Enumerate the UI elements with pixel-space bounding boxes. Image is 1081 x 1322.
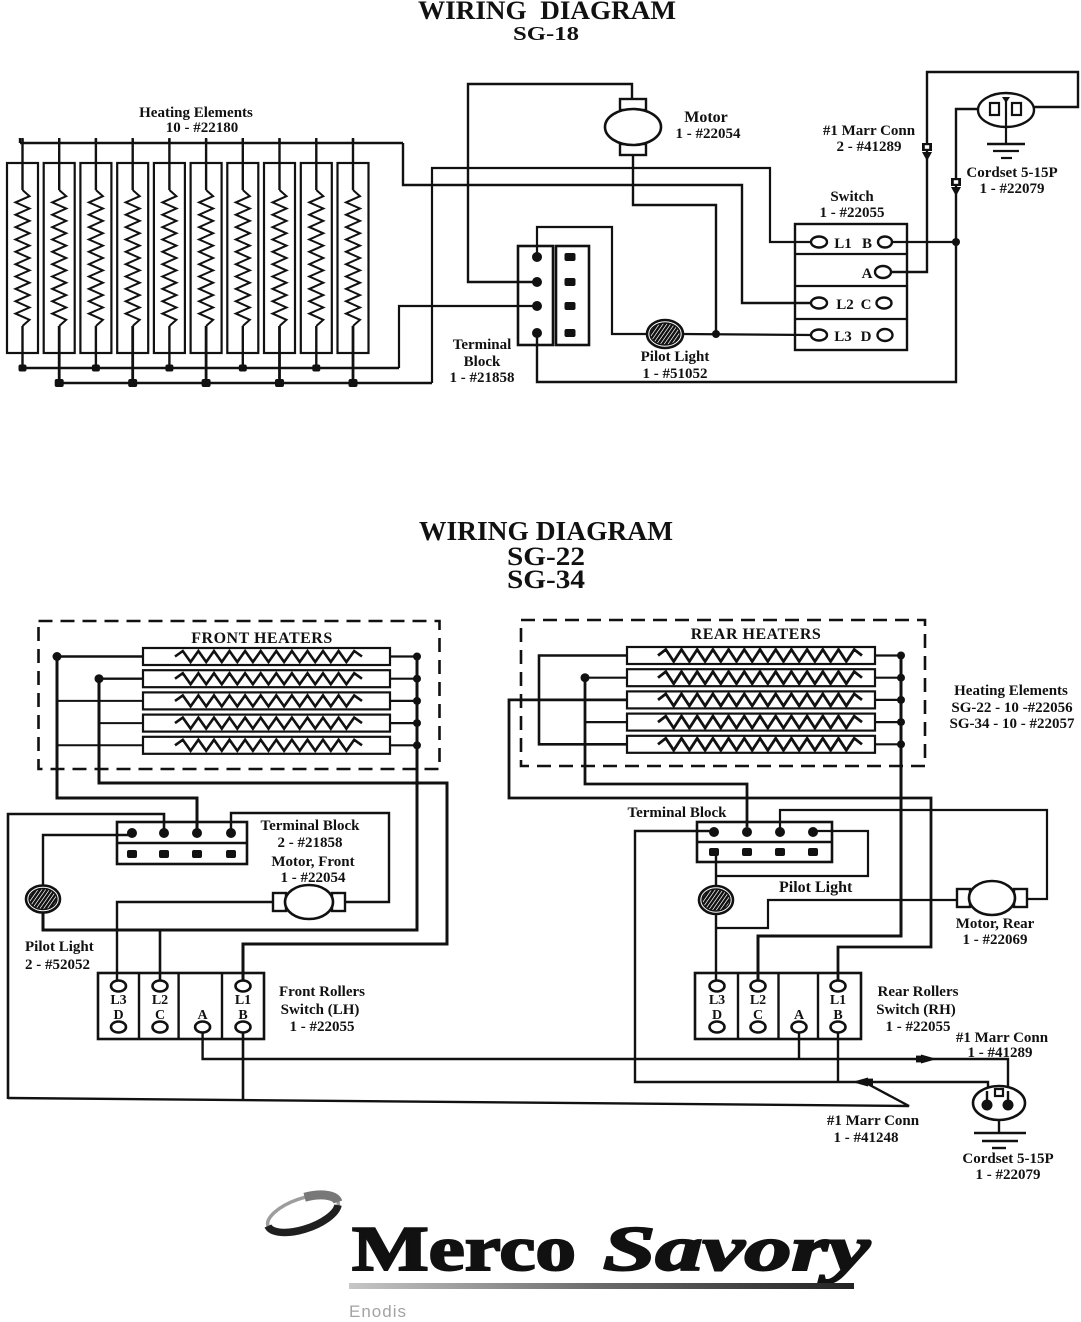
front heating element FE3 <box>143 692 390 709</box>
svg-text:Switch: Switch <box>830 189 874 205</box>
wire: rear heater 3 right lead <box>875 699 901 701</box>
svg-text:Merco: Merco <box>352 1214 576 1284</box>
wire: front switch L2 riser <box>159 930 162 981</box>
svg-text:Terminal Block: Terminal Block <box>260 818 360 834</box>
wire: heater bottom bus 2 (even elements) <box>59 382 432 385</box>
wire: front left bus B to switch L1 <box>99 679 447 981</box>
wire: front heater 2 right lead <box>390 678 417 680</box>
wire: rear pilot top riser <box>715 852 717 886</box>
junction: bus A top <box>53 652 62 661</box>
svg-text:Pilot Light: Pilot Light <box>641 349 710 365</box>
wire: front right bus to L2/pilot <box>43 657 417 931</box>
wire: front heater 2 left lead <box>99 678 143 680</box>
wire: left rail (terminal pin 2 to cordset neutral) <box>8 814 164 1099</box>
heating element E5 (#22180) with leads <box>154 163 185 353</box>
svg-text:Savory: Savory <box>603 1214 872 1284</box>
marr conn (neutral splice, 1 - #41248) <box>852 1078 868 1087</box>
svg-text:L2: L2 <box>152 993 168 1008</box>
wire: front heater 1 right lead <box>390 655 417 657</box>
svg-text:1 - #21858: 1 - #21858 <box>450 370 515 386</box>
junction: bus B top <box>95 674 104 683</box>
rear heating element RE5 <box>627 736 875 753</box>
svg-text:C: C <box>861 297 872 313</box>
svg-text:Pilot Light: Pilot Light <box>25 939 94 955</box>
svg-text:SG-22 - 10 -#22056: SG-22 - 10 -#22056 <box>951 700 1073 716</box>
front heating element FE2 <box>143 670 390 687</box>
svg-text:SG-18: SG-18 <box>513 23 579 45</box>
wire: front switch B down to neutral run <box>242 1033 245 1100</box>
wire: motor M1 bottom to pilot/L3 node <box>633 156 716 334</box>
marr conn (on neutral riser, #41289) <box>951 178 961 186</box>
pilot light PL3 (rear, #52052) <box>699 886 733 914</box>
svg-text:D: D <box>861 329 872 345</box>
logo gradient bar <box>349 1283 854 1289</box>
wire: front switch A to cordset hot (long run) <box>203 1033 1008 1091</box>
wire: front heater 3 left lead <box>57 700 143 702</box>
wire: rear heater1/heater5 series link <box>539 656 627 745</box>
wire: front heater 5 right lead <box>390 744 417 746</box>
svg-text:1 - #41289: 1 - #41289 <box>968 1045 1033 1061</box>
svg-text:A: A <box>862 266 873 282</box>
terminal block TB2 (front, 2 - #21858) <box>117 822 247 864</box>
svg-text:Enodis: Enodis <box>349 1302 407 1321</box>
wire: rear switch B riser to neutral splice <box>837 1033 839 1082</box>
svg-text:L1: L1 <box>834 236 852 252</box>
wire: front heater 4 right lead <box>390 722 417 724</box>
wire: rear heater 2 lead to bus <box>585 677 627 679</box>
heating element E7 (#22180) with leads <box>227 163 258 353</box>
svg-text:Cordset 5-15P: Cordset 5-15P <box>962 1151 1053 1167</box>
svg-text:#1 Marr Conn: #1 Marr Conn <box>956 1030 1049 1046</box>
heating element E2 (#22180) with leads <box>44 163 75 353</box>
rear heating element RE3 <box>627 691 875 708</box>
svg-text:REAR HEATERS: REAR HEATERS <box>691 626 822 643</box>
wire: rear pilot bottom to switch L3 <box>715 914 717 981</box>
wire: heater bottom bus 1 (odd elements) <box>22 367 399 370</box>
svg-text:10 - #22180: 10 - #22180 <box>166 120 239 136</box>
marr conn (on hot riser, #41289) <box>922 143 932 151</box>
svg-text:L2: L2 <box>836 297 854 313</box>
junction: rear bus 2/4 top <box>581 673 590 682</box>
wire: front left bus A to terminal pin 3 <box>57 657 197 832</box>
svg-text:L1: L1 <box>235 993 251 1008</box>
heating element E4 (#22180) with leads <box>117 163 148 353</box>
svg-text:B: B <box>862 236 872 252</box>
svg-text:Heating Elements: Heating Elements <box>139 105 253 121</box>
svg-text:1 - #41248: 1 - #41248 <box>834 1130 899 1146</box>
wire: rear heater 3 to switch L1 <box>509 700 931 981</box>
svg-text:SG-34: SG-34 <box>507 565 585 594</box>
svg-text:Block: Block <box>464 354 501 370</box>
svg-text:L3: L3 <box>110 993 126 1008</box>
marr conn (on hot run, 1 - #41289) <box>921 1055 937 1064</box>
switch SW1 (1 - #22055) <box>795 224 907 350</box>
wire: rear heater 2 right lead <box>875 677 901 679</box>
wire: terminal pin 2 to motor M1 top <box>468 84 632 282</box>
wire: front pilot top to terminal pin 1 <box>43 835 136 886</box>
svg-text:1 - #22079: 1 - #22079 <box>980 181 1045 197</box>
svg-text:Heating Elements: Heating Elements <box>954 683 1068 699</box>
wire: front heater 5 left lead <box>57 744 143 746</box>
svg-text:Front Rollers: Front Rollers <box>279 984 365 1000</box>
svg-text:Rear Rollers: Rear Rollers <box>878 984 959 1000</box>
cordset plug J1 (5-15P) with ground <box>978 93 1034 127</box>
wire: front heater 4 left lead <box>99 722 143 724</box>
dashed enclosure: REAR HEATERS <box>521 620 925 766</box>
svg-text:1 - #22069: 1 - #22069 <box>963 932 1028 948</box>
motor M3 (rear, 1 - #22069) <box>957 889 970 907</box>
rear heating element RE1 <box>627 647 875 664</box>
wire: bottom bus 2 to switch L1 <box>432 168 811 383</box>
wire: terminal pin 4 to front motor right <box>231 813 389 902</box>
svg-text:1 - #51052: 1 - #51052 <box>643 366 708 382</box>
svg-text:Cordset 5-15P: Cordset 5-15P <box>966 165 1057 181</box>
motor M1 (1 - #22054) <box>620 99 646 110</box>
svg-text:1 - #22055: 1 - #22055 <box>820 205 885 221</box>
svg-text:Motor, Rear: Motor, Rear <box>956 916 1035 932</box>
svg-text:Motor, Front: Motor, Front <box>271 854 354 870</box>
wire: heater top bus <box>20 142 403 144</box>
wire: rear terminal pin 3 to rear motor right <box>780 810 1047 899</box>
front heating element FE5 <box>143 737 390 754</box>
heating element E3 (#22180) with leads <box>80 163 111 353</box>
svg-text:#1 Marr Conn: #1 Marr Conn <box>823 123 916 139</box>
svg-text:#1 Marr Conn: #1 Marr Conn <box>827 1113 920 1129</box>
wire: rear heater 1 right lead <box>875 654 901 656</box>
wire: rear terminal pin 4 to pilot top node <box>716 831 868 876</box>
wire: front motor left to switch L3 <box>117 902 273 981</box>
logo swoosh <box>263 1187 343 1240</box>
svg-text:Motor: Motor <box>684 109 728 126</box>
rear heating element RE2 <box>627 669 875 686</box>
motor M2 (front, 1 - #22054) <box>273 893 286 911</box>
svg-text:1 - #22054: 1 - #22054 <box>281 870 346 886</box>
wire: rear bus 2/4 to terminal pin 2 <box>585 678 747 827</box>
wire: neutral bottom run <box>8 1083 909 1106</box>
wire: front heater 3 right lead <box>390 700 417 702</box>
heating element E1 (#22180) with leads <box>7 163 38 353</box>
heating element E6 (#22180) with leads <box>191 163 222 353</box>
terminal block TB1 (1 - #21858) <box>518 246 553 345</box>
wire: front heater 1 left lead <box>57 655 143 657</box>
wire: terminal pin 1 to pilot light left <box>537 227 648 334</box>
wire: rear heater 5 right lead <box>875 743 901 745</box>
svg-text:1 - #22055: 1 - #22055 <box>886 1019 951 1035</box>
wire: switch A to cordset hot <box>891 72 1078 272</box>
wire: top bus to switch L2 <box>403 143 811 303</box>
svg-text:2 - #52052: 2 - #52052 <box>25 957 90 973</box>
junction: B terminal node <box>952 238 960 246</box>
heating element E10 (#22180) with leads <box>338 163 369 353</box>
wire: terminal pin 4 to switch B / cordset neutral <box>537 109 979 382</box>
svg-text:FRONT HEATERS: FRONT HEATERS <box>191 630 333 647</box>
front heating element FE1 <box>143 648 390 665</box>
wire: bottom bus 1 to terminal block pin 3 <box>399 306 533 368</box>
wire: rear right bus to switch L2 <box>758 656 901 982</box>
front rollers switch SW2 (LH, 1 - #22055) <box>98 973 264 1039</box>
svg-text:WIRING DIAGRAM: WIRING DIAGRAM <box>418 0 676 25</box>
junction: motor/pilot/L3 node <box>712 330 720 338</box>
svg-text:L2: L2 <box>750 993 766 1008</box>
pilot light PL1 (1 - #51052) <box>647 320 683 348</box>
front heating element FE4 <box>143 715 390 732</box>
svg-text:L3: L3 <box>709 993 725 1008</box>
svg-text:2 - #21858: 2 - #21858 <box>278 835 343 851</box>
heating element E9 (#22180) with leads <box>301 163 332 353</box>
svg-text:2 - #41289: 2 - #41289 <box>837 139 902 155</box>
svg-text:1 - #22079: 1 - #22079 <box>976 1167 1041 1183</box>
svg-text:SG-34 - 10 - #22057: SG-34 - 10 - #22057 <box>950 716 1075 732</box>
wire: rear heater 4 right lead <box>875 721 901 723</box>
svg-text:1 - #22054: 1 - #22054 <box>676 126 741 142</box>
svg-text:L3: L3 <box>834 329 852 345</box>
svg-text:1 - #22055: 1 - #22055 <box>290 1019 355 1035</box>
rear rollers switch SW3 (RH, 1 - #22055) <box>695 973 861 1039</box>
rear heating element RE4 <box>627 714 875 731</box>
wire: rear heater 4 lead to bus <box>585 721 627 723</box>
svg-text:Switch (RH): Switch (RH) <box>876 1002 956 1018</box>
svg-text:Pilot Light: Pilot Light <box>779 879 853 896</box>
wire: switch B to neutral riser <box>893 241 956 243</box>
terminal block TB3 (rear) <box>697 822 832 862</box>
svg-text:Terminal Block: Terminal Block <box>627 805 727 821</box>
pilot light PL2 (front, #52052) <box>26 886 60 913</box>
wire: rear switch A riser to hot run <box>798 1033 800 1059</box>
heating element E8 (#22180) with leads <box>264 163 295 353</box>
wire: pilot light right to switch L3 <box>682 334 811 335</box>
dashed enclosure: FRONT HEATERS <box>39 621 440 769</box>
svg-text:Switch (LH): Switch (LH) <box>281 1002 360 1018</box>
wire: rear motor left to pilot/L3 node <box>716 900 956 928</box>
svg-text:L1: L1 <box>830 993 846 1008</box>
wire: rear terminal pin 1 to neutral run <box>635 831 988 1091</box>
cordset plug J2 (5-15P) with ground <box>973 1086 1025 1120</box>
svg-text:Terminal: Terminal <box>453 337 512 353</box>
